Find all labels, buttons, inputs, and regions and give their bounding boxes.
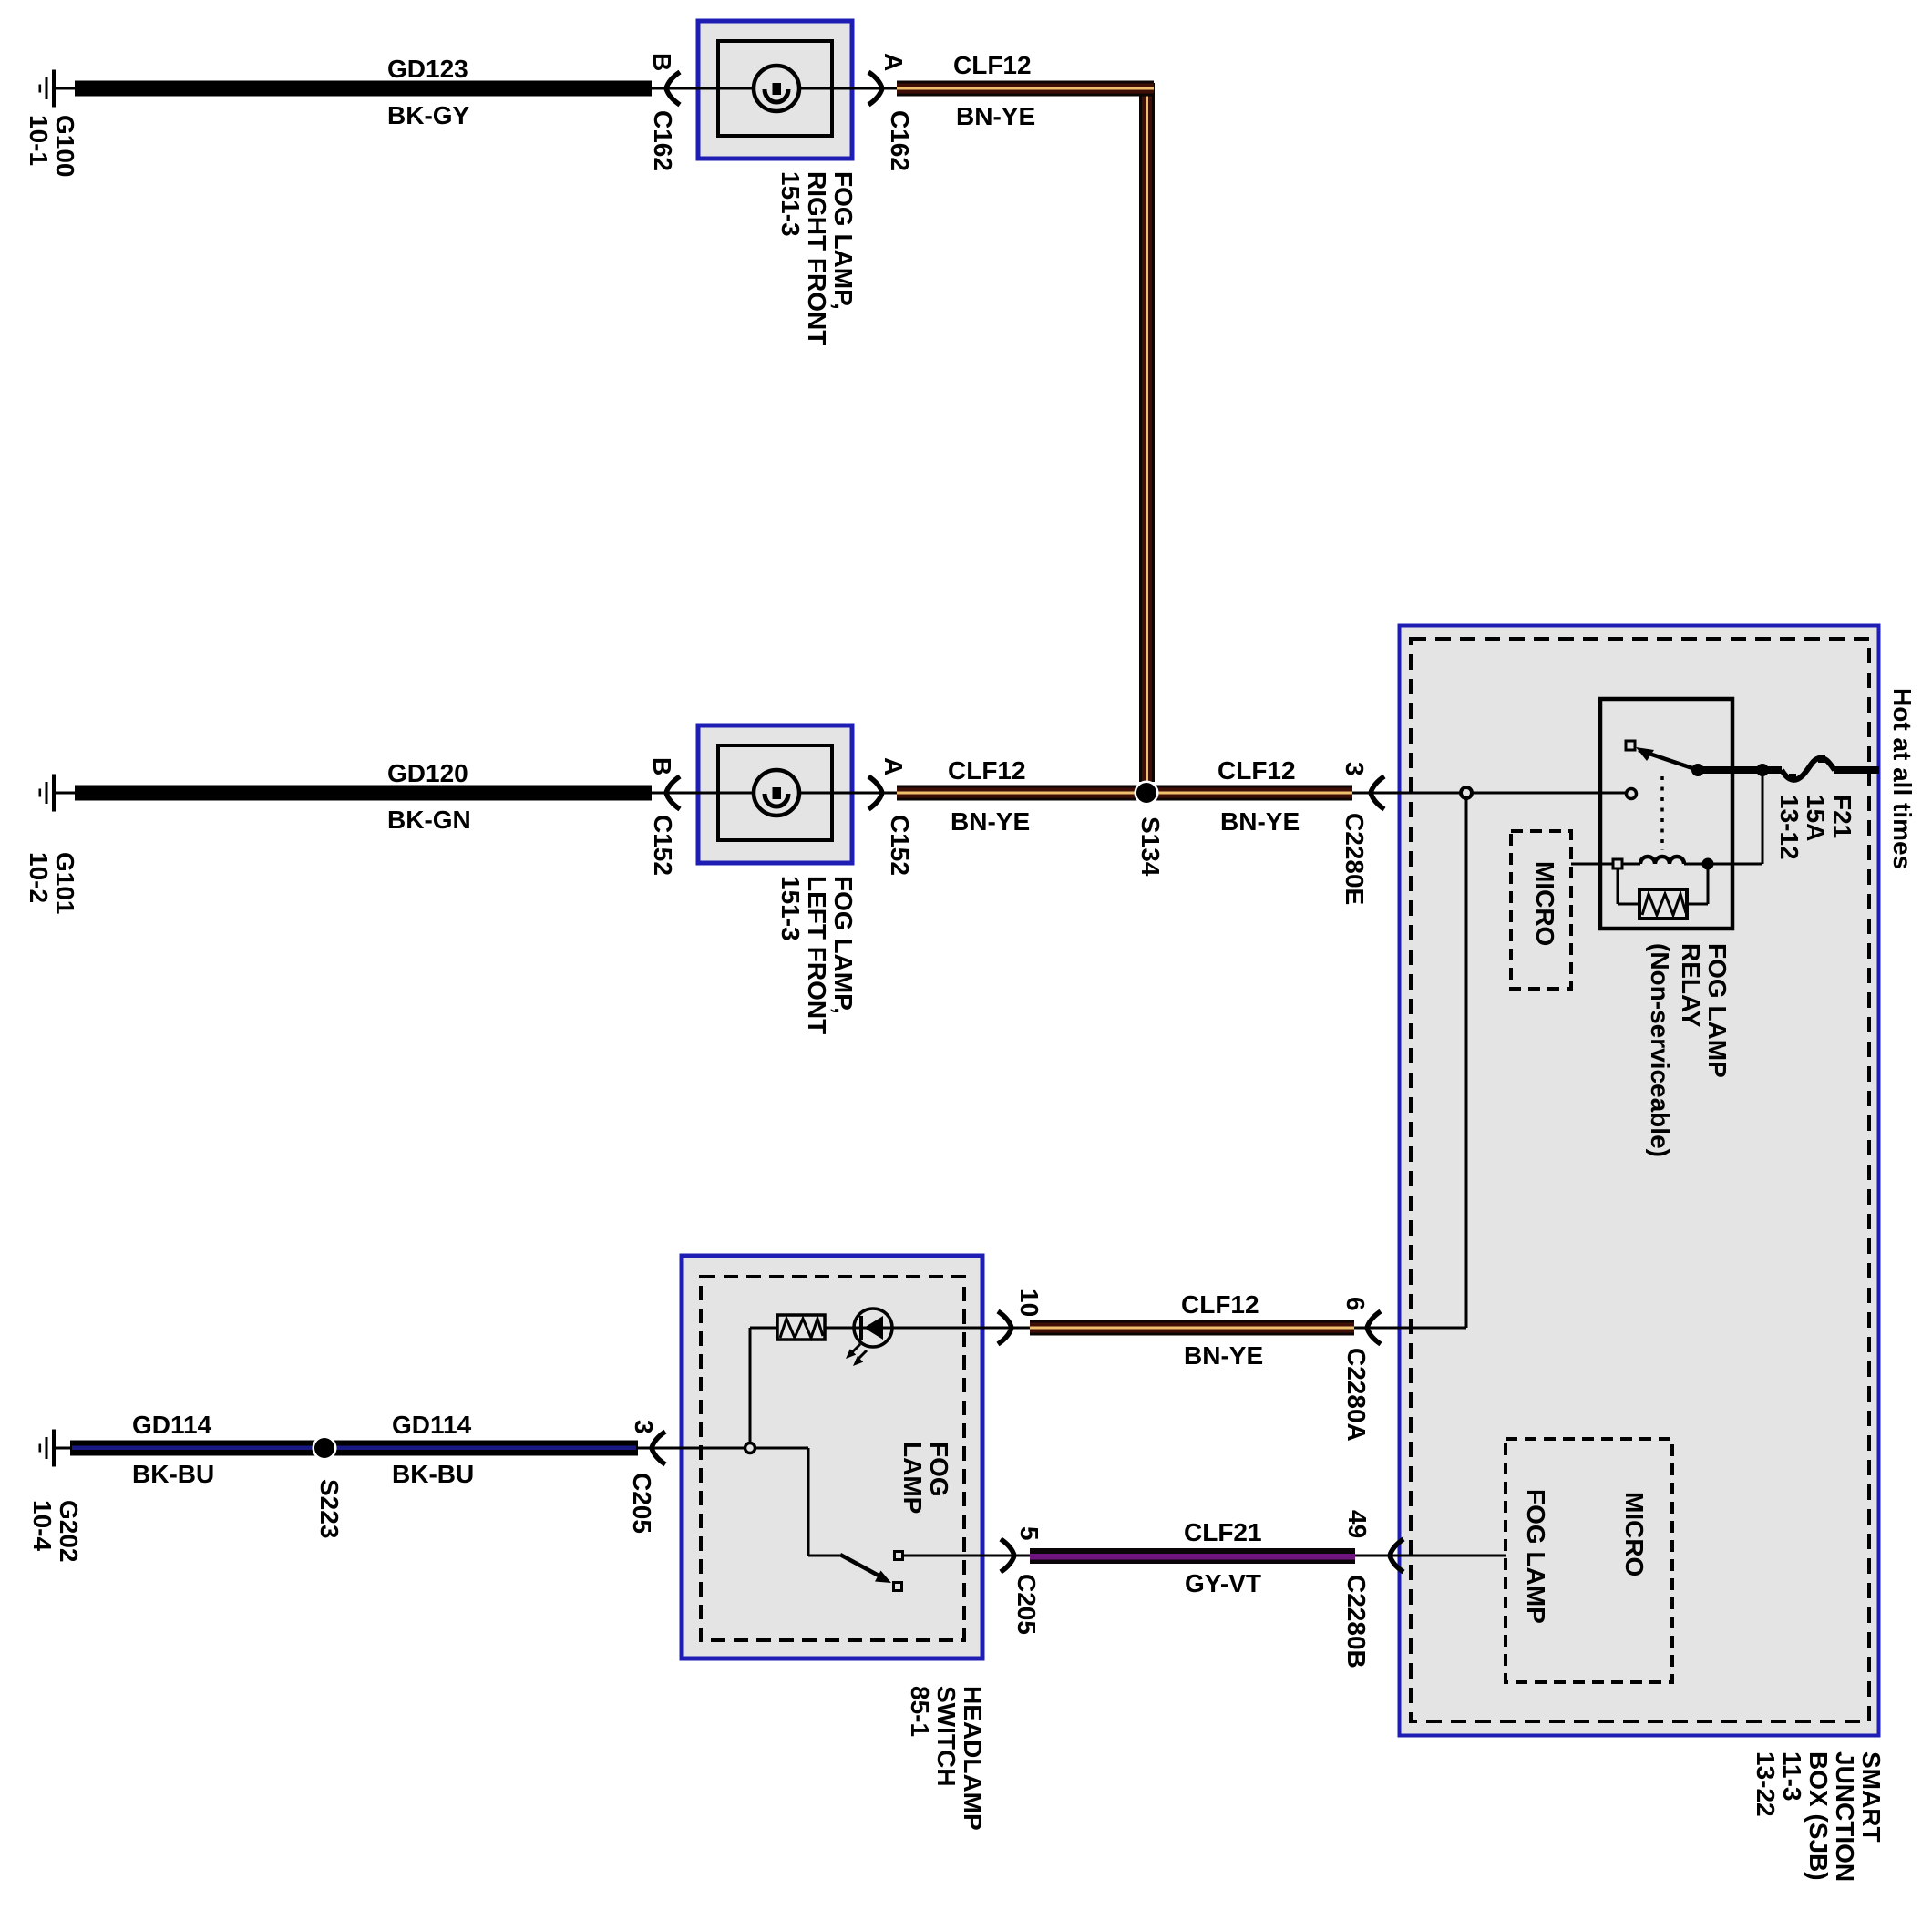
svg-text:BN-YE: BN-YE	[956, 102, 1035, 130]
svg-text:C205: C205	[1012, 1574, 1041, 1635]
svg-text:GD123: GD123	[387, 55, 468, 83]
micro box (relay driver)	[1511, 831, 1571, 989]
wire hot feed (thick)	[1698, 766, 1782, 774]
relay NO contact	[1626, 741, 1635, 750]
connector arrow pin 10	[998, 1311, 1012, 1344]
svg-text:C2280A: C2280A	[1342, 1348, 1371, 1442]
svg-text:10-4: 10-4	[28, 1500, 57, 1551]
svg-text:CLF21: CLF21	[1184, 1518, 1262, 1546]
svg-text:BN-YE: BN-YE	[951, 807, 1030, 836]
svg-text:(Non-serviceable): (Non-serviceable)	[1646, 943, 1674, 1157]
svg-text:FOG LAMP,: FOG LAMP,	[829, 171, 858, 310]
svg-text:RELAY: RELAY	[1677, 943, 1705, 1028]
relay switch arm	[1639, 750, 1698, 770]
svg-text:JUNCTION: JUNCTION	[1831, 1751, 1859, 1882]
wire (thin) into SJB pin 3	[1352, 792, 1626, 795]
svg-text:B: B	[648, 53, 676, 71]
connector arrow pin 5	[1001, 1539, 1014, 1572]
node (headlamp switch input)	[745, 1443, 755, 1453]
svg-text:GD120: GD120	[387, 759, 468, 787]
svg-text:BK-BU: BK-BU	[392, 1460, 474, 1488]
wire (thin) through connector and lamp	[652, 87, 897, 90]
svg-text:C152: C152	[886, 815, 914, 876]
svg-text:G202: G202	[55, 1500, 83, 1563]
svg-text:LAMP: LAMP	[899, 1442, 927, 1514]
wire to fog lamp switch	[755, 1447, 808, 1450]
svg-text:10-2: 10-2	[25, 852, 53, 903]
svg-text:CLF12: CLF12	[1218, 756, 1296, 785]
wire CLF12 BN-YE (row2)	[897, 786, 1352, 801]
wire resistor to LED to pin 10	[825, 1327, 1030, 1330]
wire GD120 BK-GN (thick black)	[75, 786, 652, 801]
fuse F21 15A 13-12	[1782, 758, 1834, 780]
svg-text:S223: S223	[315, 1479, 344, 1538]
connector arrow A C152	[868, 776, 882, 809]
svg-text:C162: C162	[886, 110, 914, 171]
bulb (left front fog lamp)	[754, 770, 799, 816]
wire GD114 BK-BU (thick black-blue)	[70, 1441, 638, 1456]
splice S223	[313, 1436, 337, 1461]
svg-text:11-3: 11-3	[1778, 1751, 1806, 1802]
relay common contact	[1627, 789, 1637, 799]
wire (thin) into headlamp switch pin 3	[638, 1447, 745, 1450]
svg-text:3: 3	[1341, 762, 1369, 776]
illumination resistor	[777, 1315, 825, 1340]
svg-text:C2280B: C2280B	[1342, 1575, 1371, 1669]
svg-text:49: 49	[1343, 1510, 1372, 1538]
fog lamp switch arm	[840, 1555, 880, 1576]
svg-text:CLF12: CLF12	[948, 756, 1026, 785]
connector arrow pin 49 C2280B	[1390, 1539, 1403, 1572]
svg-text:3: 3	[630, 1420, 658, 1434]
connector arrow pin 3 C205	[652, 1432, 665, 1464]
bulb (right front fog lamp)	[754, 66, 799, 111]
switch lower contact	[894, 1583, 902, 1591]
svg-text:C205: C205	[628, 1473, 656, 1534]
svg-text:CLF12: CLF12	[1181, 1290, 1259, 1319]
svg-text:FOG LAMP: FOG LAMP	[1703, 943, 1732, 1078]
connector arrow A C162	[868, 72, 882, 105]
node (coil right)	[1702, 858, 1714, 870]
node (hot feed junction)	[1756, 764, 1769, 776]
ground G202	[39, 1430, 76, 1467]
connector arrow B C152	[666, 776, 680, 809]
fog lamp relay box	[1600, 699, 1732, 929]
svg-text:HEADLAMP: HEADLAMP	[959, 1686, 987, 1831]
relay suppression resistor	[1617, 868, 1619, 904]
wire (thin) pin 49 into SJB	[1355, 1555, 1506, 1557]
svg-text:C2280E: C2280E	[1341, 813, 1369, 905]
wire CLF12 BN-YE (row3)	[1030, 1320, 1354, 1336]
wire (vertical feed to pin 6)	[1465, 799, 1468, 1328]
svg-text:G101: G101	[51, 852, 79, 915]
svg-text:SWITCH: SWITCH	[932, 1686, 961, 1786]
svg-text:13-12: 13-12	[1775, 795, 1804, 860]
svg-text:10-1: 10-1	[25, 115, 53, 166]
svg-text:BK-GN: BK-GN	[387, 806, 471, 834]
micro fog lamp box	[1506, 1439, 1672, 1682]
svg-text:151-3: 151-3	[776, 876, 805, 941]
svg-text:CLF12: CLF12	[953, 51, 1032, 79]
svg-text:BN-YE: BN-YE	[1184, 1341, 1263, 1370]
smart junction box (SJB) outline	[1400, 626, 1879, 1736]
connector arrow pin 3 C2280E	[1371, 776, 1384, 809]
svg-text:RIGHT FRONT: RIGHT FRONT	[803, 171, 831, 345]
svg-text:13-22: 13-22	[1752, 1751, 1780, 1817]
relay actuation dotted line	[1660, 776, 1664, 850]
wire (thin) pin 6 into SJB	[1354, 1327, 1466, 1330]
svg-text:A: A	[879, 757, 908, 775]
wire coil to fuse line	[1713, 863, 1762, 866]
svg-text:C152: C152	[649, 815, 677, 876]
svg-text:GD114: GD114	[392, 1411, 472, 1439]
relay coil	[1571, 863, 1613, 866]
wire switch to pin 5	[903, 1555, 1030, 1557]
wire (thin) through connector and lamp	[652, 792, 897, 795]
svg-text:FOG LAMP,: FOG LAMP,	[829, 876, 858, 1014]
svg-text:F21: F21	[1828, 795, 1856, 838]
ground G100	[39, 70, 76, 108]
switch output contact	[895, 1552, 903, 1560]
headlamp switch box outline	[682, 1256, 982, 1658]
wire CLF12 BN-YE (row1, vertical drop)	[1139, 83, 1155, 782]
svg-text:GY-VT: GY-VT	[1185, 1569, 1261, 1597]
splice S134	[1135, 781, 1159, 806]
connector arrow B C162	[666, 72, 680, 105]
svg-text:S134: S134	[1136, 816, 1165, 877]
wire GD123 BK-GY (thick black)	[75, 81, 652, 97]
svg-text:FOG: FOG	[925, 1442, 953, 1497]
svg-text:B: B	[648, 757, 676, 775]
svg-text:Hot at all times: Hot at all times	[1888, 688, 1917, 869]
svg-text:10: 10	[1015, 1289, 1043, 1317]
svg-text:BK-GY: BK-GY	[387, 101, 470, 129]
svg-text:BK-BU: BK-BU	[132, 1460, 214, 1488]
svg-text:BN-YE: BN-YE	[1220, 807, 1300, 836]
wire CLF12 BN-YE (row1, horizontal)	[897, 81, 1154, 97]
wire CLF21 GY-VT (row4)	[1030, 1548, 1355, 1564]
svg-text:6: 6	[1341, 1297, 1370, 1311]
svg-text:151-3: 151-3	[776, 171, 805, 237]
indicator LED	[854, 1309, 892, 1347]
svg-text:FOG LAMP: FOG LAMP	[1522, 1489, 1550, 1624]
svg-text:15A: 15A	[1802, 795, 1830, 841]
wire to illumination resistor	[749, 1328, 752, 1443]
node (junction to pin 6 feed)	[1461, 787, 1472, 798]
svg-text:GD114: GD114	[132, 1411, 212, 1439]
ground G101	[39, 775, 76, 812]
svg-text:MICRO: MICRO	[1620, 1492, 1649, 1576]
svg-text:85-1: 85-1	[906, 1686, 934, 1737]
wire fuse to box edge (thick)	[1834, 766, 1879, 774]
svg-text:5: 5	[1015, 1526, 1043, 1541]
svg-text:C162: C162	[649, 110, 677, 171]
svg-text:G100: G100	[51, 115, 79, 178]
svg-text:BOX (SJB): BOX (SJB)	[1804, 1751, 1833, 1881]
fog lamp right front box	[698, 21, 852, 159]
svg-text:LEFT FRONT: LEFT FRONT	[803, 876, 831, 1034]
fog lamp left front box	[698, 725, 852, 863]
svg-text:A: A	[879, 53, 908, 71]
svg-text:MICRO: MICRO	[1531, 861, 1559, 946]
headlamp switch inner dashed border	[701, 1277, 964, 1640]
svg-text:SMART: SMART	[1857, 1751, 1886, 1843]
node (relay arm on hot feed)	[1691, 764, 1704, 776]
SJB inner dashed border	[1411, 639, 1869, 1721]
connector arrow pin 6 C2280A	[1367, 1311, 1381, 1344]
